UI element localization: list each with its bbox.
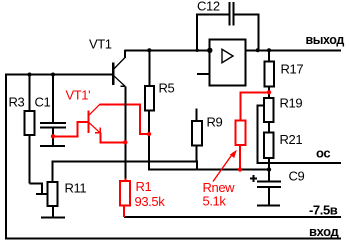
node dot Rnew bottom junction (red) [238, 167, 242, 171]
svg-text:5.1k: 5.1k [203, 193, 227, 208]
wire C12 top left [196, 14, 229, 16]
capacitor C1 [40, 75, 66, 147]
svg-text:93.5k: 93.5k [135, 194, 166, 209]
node dot VT1' emitter junction (red) [123, 140, 127, 144]
node dot VT1' collector junction (red) [147, 132, 151, 136]
node dot C12 right leg [256, 48, 260, 52]
svg-text:R3: R3 [9, 95, 25, 110]
node dot C1 to VT1' base (red) [51, 134, 55, 138]
wire inverting input stub [197, 73, 210, 75]
svg-text:ос: ос [316, 146, 330, 161]
node dot R17 top [267, 48, 271, 52]
transistor VT1 [113, 50, 125, 86]
wire output line to выход [246, 49, 342, 51]
svg-text:R17: R17 [281, 62, 304, 77]
svg-text:VT1': VT1' [66, 88, 91, 103]
red arrow pointing to Rnew [213, 150, 237, 182]
node dot Rnew top junction (red) [267, 90, 271, 94]
wire upper ос rail with L to R19 [258, 105, 342, 163]
wire VT1' collector to R5 (red) [100, 105, 150, 134]
resistor R5 [145, 50, 154, 169]
node dot C12 left leg [196, 49, 199, 52]
svg-text:R11: R11 [65, 181, 87, 196]
resistor R17 [264, 50, 274, 98]
svg-text:вход: вход [309, 224, 339, 239]
svg-text:R9: R9 [207, 115, 223, 130]
capacitor C9 electrolytic [257, 170, 281, 206]
svg-text:-7.5в: -7.5в [309, 202, 338, 217]
svg-text:R5: R5 [159, 81, 175, 96]
svg-text:R1: R1 [136, 179, 152, 194]
svg-text:R21: R21 [280, 132, 303, 147]
resistor R9 [192, 109, 202, 162]
resistor R1 93.5k (red) [120, 179, 130, 218]
node dot R3 top [28, 73, 32, 77]
resistor R19 [264, 98, 274, 133]
svg-text:C12: C12 [197, 0, 220, 14]
wire VT1 emitter vertical down to R1 [124, 86, 126, 180]
svg-text:C1: C1 [35, 95, 51, 110]
node dot C1 top [51, 73, 55, 77]
wire top collector rail [125, 49, 210, 51]
wire C12 top right [234, 14, 259, 16]
op-amp U1 [210, 39, 246, 85]
wire bottom вход line [5, 238, 341, 240]
resistor Rnew 5.1k (red) [235, 92, 269, 169]
svg-text:выход: выход [306, 33, 345, 47]
wire VT1 emitter overdraw at crossing [124, 101, 126, 109]
svg-text:VT1: VT1 [89, 36, 112, 51]
node dot C9 ос junction [267, 167, 271, 171]
resistor R11 [41, 182, 65, 218]
resistor R21 [264, 133, 274, 170]
wire C12 left leg [196, 14, 198, 51]
capacitor C12 [230, 2, 234, 26]
transistor VT1' (red) [53, 104, 149, 142]
svg-text:C9: C9 [289, 169, 305, 184]
wire left border input loop [5, 73, 7, 238]
wire lower ос line [148, 169, 269, 171]
wire VT1' emitter bend to VT1 emitter line (red) [100, 133, 125, 143]
wire C12 right leg [258, 14, 260, 51]
node dot op-amp input [207, 48, 212, 53]
node dot R5 top [147, 48, 151, 52]
wire base rail left (вход net to VT1 base) [5, 74, 113, 76]
resistor R3 [25, 74, 48, 194]
wire -7.5в rail [124, 216, 341, 218]
C9 plus sign [250, 175, 257, 182]
svg-text:R19: R19 [280, 96, 303, 111]
wire mid rail R11 to R9 corner [52, 162, 197, 183]
